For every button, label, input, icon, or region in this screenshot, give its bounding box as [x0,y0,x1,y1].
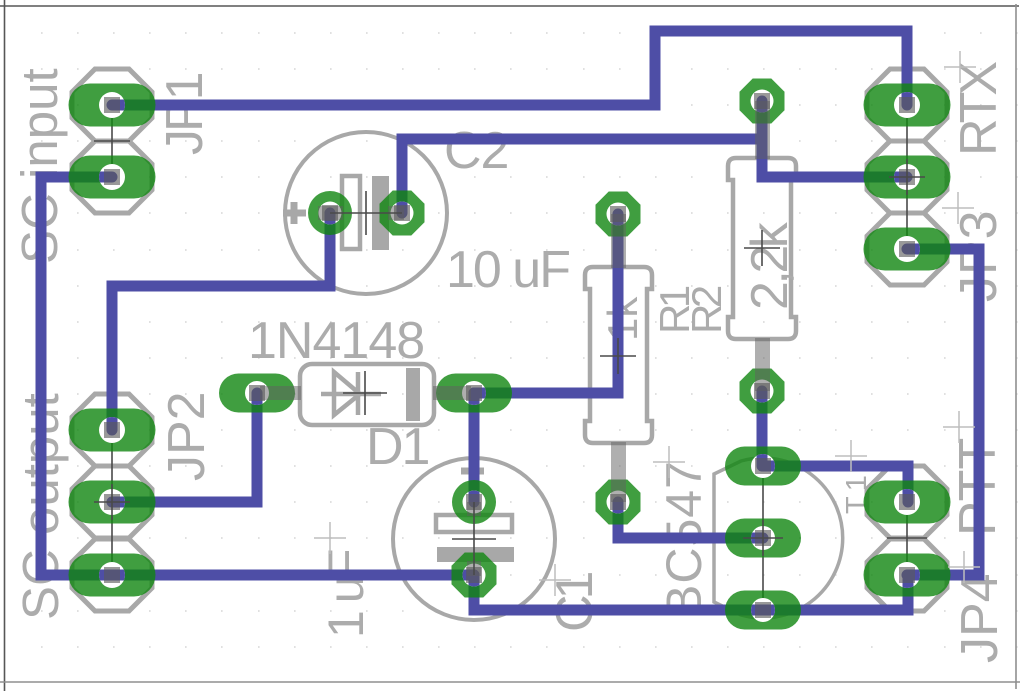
svg-text:1 uF: 1 uF [318,550,374,638]
svg-text:C2: C2 [444,122,508,180]
svg-text:JP1: JP1 [156,73,214,155]
svg-text:1N4148: 1N4148 [248,312,424,370]
svg-text:10 uF: 10 uF [446,241,569,299]
svg-text:JP2: JP2 [158,391,216,481]
svg-text:D1: D1 [366,418,429,476]
svg-text:2,2k: 2,2k [741,221,799,310]
svg-text:R2: R2 [683,286,730,334]
svg-text:RTX: RTX [950,62,1008,156]
svg-text:JP4: JP4 [951,573,1009,663]
